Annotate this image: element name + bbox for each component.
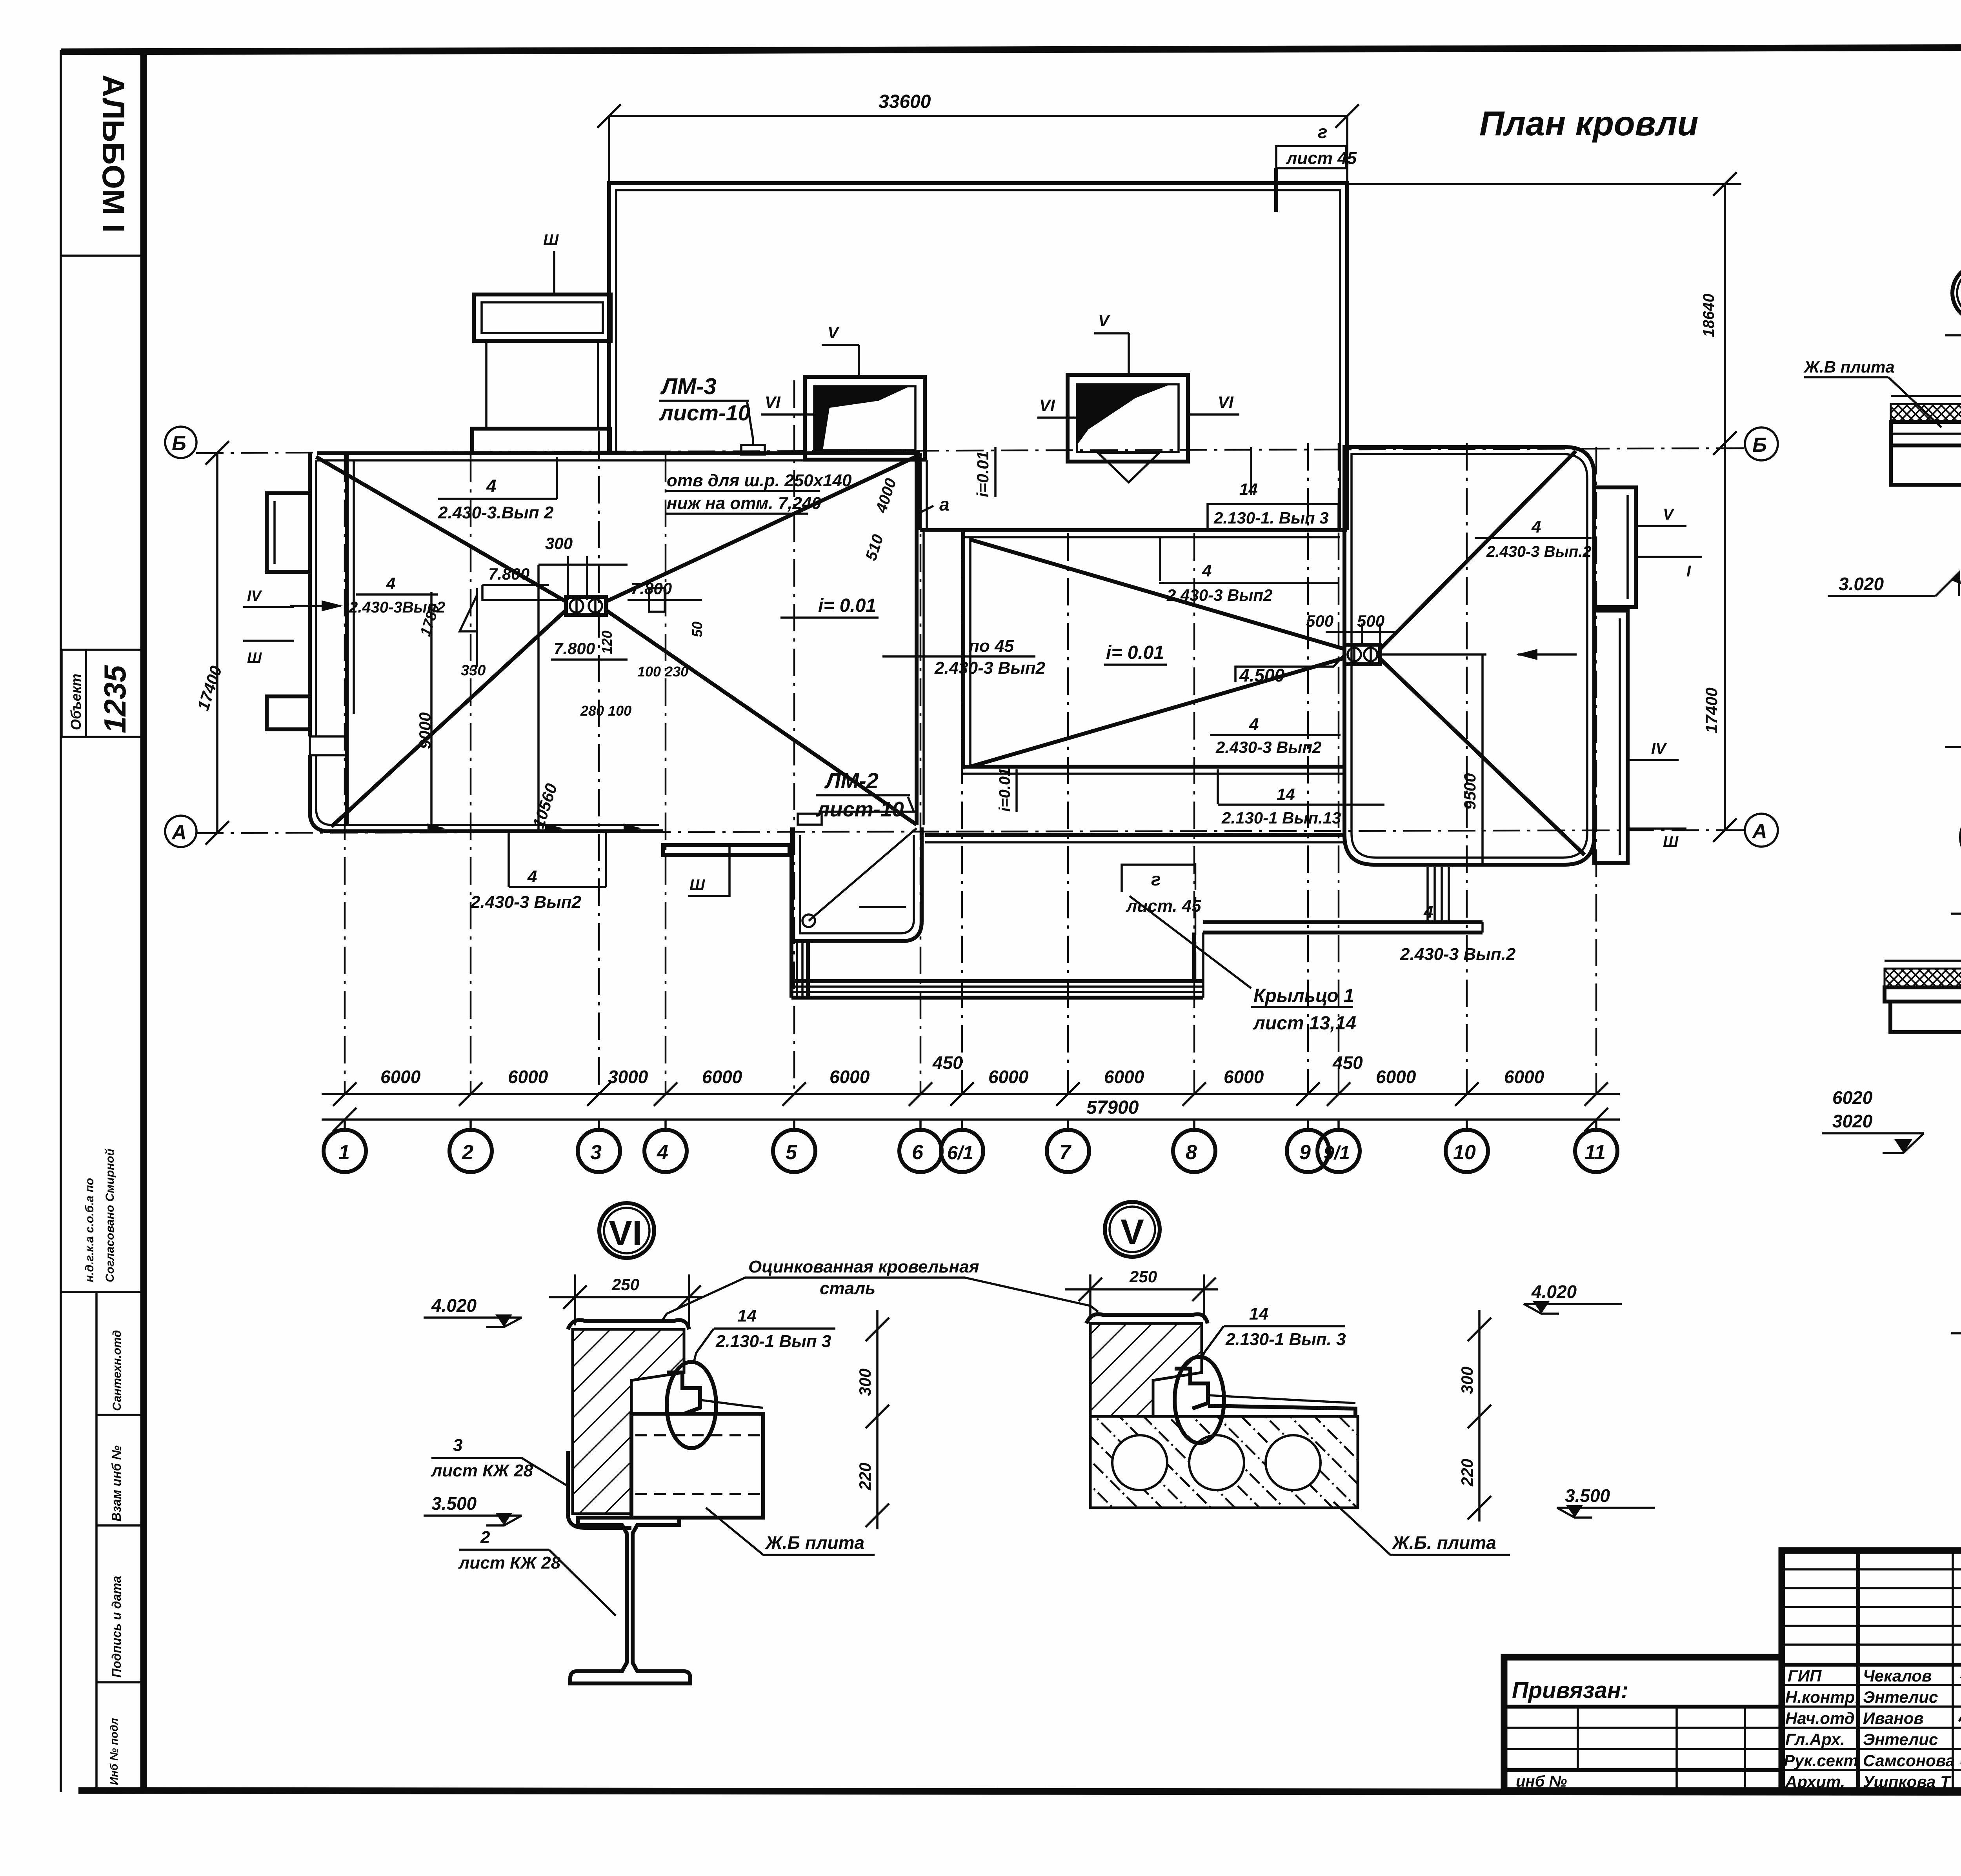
- detail VI: [424, 1274, 889, 1683]
- svg-text:инб №: инб №: [1516, 1773, 1567, 1790]
- chimney upper box: [474, 294, 611, 341]
- svg-text:9500: 9500: [1461, 773, 1479, 810]
- svg-text:А: А: [171, 821, 187, 844]
- svg-text:IV: IV: [1651, 740, 1667, 757]
- svg-text:14: 14: [1239, 480, 1258, 498]
- svg-text:лист. 45: лист. 45: [1126, 896, 1201, 916]
- walkway horizontal: [791, 979, 1203, 983]
- svg-text:4: 4: [1531, 517, 1541, 536]
- svg-text:лист КЖ 28: лист КЖ 28: [458, 1553, 561, 1572]
- svg-text:7: 7: [1059, 1141, 1071, 1164]
- svg-text:4: 4: [1202, 561, 1212, 580]
- svg-text:3.500: 3.500: [431, 1493, 477, 1514]
- svg-text:лист 13,14: лист 13,14: [1253, 1013, 1356, 1034]
- svg-text:Самсонова: Самсонова: [1863, 1751, 1955, 1770]
- left block right edge vertical: [915, 453, 919, 825]
- svg-text:Нач.отд: Нач.отд: [1785, 1709, 1855, 1727]
- svg-text:6000: 6000: [508, 1067, 548, 1087]
- grid circle А left: [165, 816, 196, 847]
- svg-text:i= 0.01: i= 0.01: [1106, 642, 1164, 663]
- section V circle: [1105, 1202, 1160, 1257]
- left edge notch: [310, 736, 347, 755]
- svg-text:11: 11: [1584, 1141, 1606, 1164]
- chimney lower box: [472, 429, 610, 453]
- svg-text:i=0.01: i=0.01: [996, 768, 1013, 812]
- mark V above skylight 1: [858, 345, 860, 377]
- svg-text:4: 4: [486, 476, 497, 496]
- svg-text:Ш: Ш: [247, 650, 262, 666]
- svg-text:8: 8: [1186, 1141, 1197, 1164]
- svg-text:VI: VI: [609, 1214, 642, 1253]
- top roof rectangle outer: [609, 183, 1347, 530]
- grid circle Б right: [1745, 427, 1778, 460]
- egg detail VI: [667, 1362, 716, 1448]
- svg-text:4: 4: [386, 574, 395, 593]
- svg-text:План кровли: План кровли: [1479, 104, 1698, 143]
- svg-text:i=0.01: i=0.01: [973, 451, 992, 497]
- signatures squiggles: [1959, 1661, 1961, 1791]
- svg-text:7.800: 7.800: [488, 565, 529, 583]
- svg-text:Рук.сект: Рук.сект: [1784, 1751, 1858, 1770]
- svg-text:Инб № подл: Инб № подл: [108, 1718, 120, 1785]
- svg-text:2.430-3 Вып2: 2.430-3 Вып2: [470, 893, 582, 912]
- I-beam: [570, 1518, 690, 1683]
- svg-text:VI: VI: [765, 393, 781, 411]
- svg-text:IV: IV: [247, 588, 262, 604]
- svg-text:300: 300: [545, 534, 573, 553]
- right drain box: [1344, 645, 1380, 664]
- galvanized cap V: [1086, 1314, 1208, 1323]
- bottom dimension chain line 1: [322, 1093, 1620, 1095]
- svg-text:4.020: 4.020: [1531, 1282, 1577, 1302]
- flag symbol: [460, 595, 477, 631]
- section marks right: [1636, 525, 1686, 527]
- DETAILS_RIGHT_PLACEHOLDER2: [1803, 265, 1961, 1438]
- svg-text:2.130-1 Вып. 3: 2.130-1 Вып. 3: [1225, 1330, 1346, 1349]
- svg-text:4: 4: [657, 1141, 668, 1164]
- svg-text:3020: 3020: [1832, 1111, 1873, 1131]
- detail I: roof slab: [1803, 311, 1961, 763]
- svg-text:г: г: [1151, 869, 1161, 889]
- dims 300 220 V: [1478, 1310, 1481, 1522]
- svg-text:ЛМ-3: ЛМ-3: [660, 374, 717, 399]
- svg-text:2.430-3 Вып2: 2.430-3 Вып2: [934, 658, 1046, 678]
- svg-text:450: 450: [1332, 1053, 1363, 1073]
- grid circles row: [324, 1130, 1617, 1172]
- left X diagonals: [316, 457, 566, 602]
- mark III above chimney: [553, 251, 555, 294]
- svg-text:4: 4: [527, 867, 537, 886]
- svg-text:V: V: [828, 323, 840, 342]
- left block left edge: [310, 453, 329, 831]
- mark VI left of skylight 2: [1037, 416, 1077, 419]
- signature table: [1782, 1551, 1961, 1791]
- mark VI left of skylight 1: [761, 413, 814, 416]
- dim 33600 top: [609, 115, 1347, 117]
- right block X diagonals: [1380, 451, 1576, 649]
- parapet hatched block V: [1090, 1323, 1202, 1416]
- label Крыльцо 1: [1130, 896, 1251, 988]
- marker г лист 45 top: [1276, 146, 1346, 168]
- svg-text:6000: 6000: [702, 1067, 742, 1087]
- svg-text:Сантехн.отд: Сантехн.отд: [111, 1330, 124, 1411]
- svg-text:2.130-1. Вып 3: 2.130-1. Вып 3: [1213, 509, 1329, 527]
- svg-text:50: 50: [689, 622, 705, 637]
- label 4.500: [1235, 654, 1344, 682]
- svg-text:I: I: [1686, 563, 1691, 580]
- grid circle А right: [1745, 814, 1778, 847]
- vertical grid dash-dot lines: [344, 455, 346, 1094]
- right bump rect: [1594, 487, 1636, 607]
- svg-text:2.430-3 Вып2: 2.430-3 Вып2: [1215, 738, 1321, 756]
- jog grid6 vertical: [918, 453, 922, 530]
- svg-text:3.020: 3.020: [1839, 574, 1884, 594]
- svg-text:18640: 18640: [1700, 294, 1717, 337]
- svg-text:220: 220: [1458, 1459, 1476, 1487]
- svg-text:450: 450: [932, 1053, 963, 1073]
- svg-text:120: 120: [599, 631, 615, 654]
- marker г лист 45 bottom: [1122, 865, 1194, 892]
- svg-text:а: а: [939, 494, 950, 514]
- svg-text:Взам инб №: Взам инб №: [109, 1445, 124, 1522]
- svg-text:3: 3: [590, 1141, 602, 1164]
- svg-text:Архит.: Архит.: [1785, 1772, 1845, 1791]
- svg-text:Ж.Б. плита: Ж.Б. плита: [1392, 1532, 1496, 1553]
- frame left border: [140, 50, 147, 1791]
- grid line А horizontal: [196, 830, 1744, 833]
- dim 250: [574, 1274, 576, 1325]
- svg-text:10: 10: [1453, 1141, 1476, 1164]
- svg-text:500: 500: [1306, 612, 1333, 630]
- svg-text:6000: 6000: [380, 1067, 421, 1087]
- svg-text:Ш: Ш: [1663, 833, 1679, 851]
- svg-text:лист-10: лист-10: [815, 798, 904, 821]
- svg-text:А: А: [1752, 820, 1767, 843]
- skylight 2: [1068, 375, 1188, 462]
- ramp band: [1203, 920, 1483, 924]
- svg-text:i= 0.01: i= 0.01: [818, 595, 876, 616]
- grid circle Б left: [165, 427, 196, 458]
- svg-text:Объект: Объект: [68, 674, 84, 730]
- svg-text:10560: 10560: [529, 781, 561, 831]
- svg-text:АЛЬБОМ I: АЛЬБОМ I: [96, 75, 131, 233]
- svg-text:14: 14: [1277, 785, 1295, 803]
- outer sheet edge left: [60, 50, 62, 1792]
- svg-text:сталь: сталь: [820, 1279, 875, 1298]
- svg-text:Ж.Б плита: Ж.Б плита: [765, 1532, 864, 1553]
- left block bottom edge: [329, 829, 663, 833]
- svg-text:2.430-3 Вып2: 2.430-3 Вып2: [1166, 586, 1272, 604]
- svg-text:510: 510: [862, 533, 887, 563]
- slab body: [1891, 422, 1961, 445]
- svg-text:V: V: [1663, 506, 1675, 523]
- inner arrow left block: [290, 605, 341, 607]
- svg-text:17400: 17400: [1702, 687, 1721, 733]
- svg-text:3.500: 3.500: [1565, 1485, 1610, 1506]
- svg-text:4: 4: [1249, 715, 1259, 734]
- svg-text:лист-10: лист-10: [659, 400, 750, 425]
- left protruding box upper: [267, 493, 310, 572]
- detail V: [1065, 1267, 1655, 1555]
- porch strip west: [663, 845, 789, 855]
- skylight 1: [805, 377, 925, 460]
- svg-text:Ш: Ш: [543, 231, 559, 249]
- svg-text:6000: 6000: [1504, 1067, 1544, 1087]
- label 4 2.430-3 Вып2 bottom left: [508, 831, 510, 887]
- detail IV: [1822, 894, 1961, 1349]
- J channel left: [568, 1451, 631, 1528]
- svg-text:Б: Б: [1752, 434, 1767, 456]
- left pointing arrow: [1518, 653, 1577, 656]
- svg-text:Привязан:: Привязан:: [1512, 1678, 1628, 1703]
- svg-text:г: г: [1318, 122, 1328, 142]
- svg-text:6000: 6000: [830, 1067, 870, 1087]
- slab lower body: [1891, 445, 1961, 485]
- frame top border: [61, 46, 1961, 52]
- svg-text:V: V: [1121, 1212, 1144, 1252]
- mark V above skylight 2: [1128, 333, 1130, 375]
- album box: [61, 254, 144, 257]
- svg-text:2: 2: [462, 1141, 473, 1164]
- svg-text:250: 250: [611, 1275, 639, 1294]
- svg-text:3: 3: [453, 1436, 462, 1455]
- middle band X diagonals: [970, 540, 1344, 649]
- DETAILS_BOTTOM_PLACEHOLDER3: [424, 1202, 1655, 1683]
- dim 18640 / 17400 right: [1347, 183, 1741, 185]
- svg-text:250: 250: [1129, 1267, 1157, 1286]
- svg-text:Иванов: Иванов: [1863, 1709, 1924, 1727]
- dims 300 220 right: [876, 1310, 879, 1529]
- svg-text:9: 9: [1299, 1141, 1311, 1164]
- frame bottom border: [78, 1791, 1961, 1793]
- svg-text:отв для ш.р. 250х140: отв для ш.р. 250х140: [667, 471, 852, 490]
- svg-text:Чекалов: Чекалов: [1863, 1667, 1932, 1685]
- svg-text:Н.контр:: Н.контр:: [1785, 1688, 1860, 1706]
- svg-text:4.500: 4.500: [1239, 665, 1285, 685]
- svg-text:2.130-1 Вып 3: 2.130-1 Вып 3: [715, 1332, 831, 1351]
- svg-text:Подпись и дата: Подпись и дата: [109, 1576, 124, 1678]
- middle band lower strip top: [963, 765, 1344, 769]
- privyazan box: [1504, 1657, 1782, 1791]
- slab cross hatch strip: [1891, 404, 1961, 422]
- mark VI right of skylight 2: [1188, 413, 1239, 416]
- svg-text:ЛМ-2: ЛМ-2: [824, 768, 879, 793]
- dim 250 V: [1089, 1274, 1091, 1320]
- svg-text:280 100: 280 100: [580, 703, 631, 719]
- right block outer: [1344, 447, 1594, 865]
- svg-text:2.430-3.Вып 2: 2.430-3.Вып 2: [438, 503, 554, 522]
- left block inner vertical: [345, 453, 349, 825]
- svg-text:Гл.Арх.: Гл.Арх.: [1785, 1730, 1845, 1749]
- stamp box dividers: [61, 1291, 144, 1293]
- svg-text:по 45: по 45: [969, 636, 1014, 656]
- roof slab IV: crosshatch strip: [1885, 969, 1961, 987]
- svg-text:Ж.В плита: Ж.В плита: [1803, 358, 1895, 376]
- svg-text:6000: 6000: [1376, 1067, 1416, 1087]
- bottom dimension chain line 2: [322, 1118, 1620, 1121]
- top roof bottom edge: [963, 528, 1347, 532]
- svg-text:4000: 4000: [872, 476, 900, 515]
- svg-text:6000: 6000: [1224, 1067, 1264, 1087]
- svg-text:57900: 57900: [1086, 1097, 1139, 1118]
- parapet hatched block VI: [573, 1329, 684, 1514]
- svg-text:3000: 3000: [608, 1067, 648, 1087]
- section marks left edge: [243, 606, 294, 608]
- svg-text:Ш: Ш: [689, 876, 705, 894]
- hollow core slab: [1090, 1416, 1358, 1508]
- svg-text:4.020: 4.020: [431, 1295, 477, 1316]
- svg-text:220: 220: [856, 1463, 874, 1491]
- svg-text:5: 5: [786, 1141, 797, 1164]
- middle band bottom edge: [925, 833, 1344, 837]
- dim 17400 left: [216, 453, 218, 833]
- porch ЛМ-2: [792, 827, 922, 941]
- svg-text:300: 300: [1458, 1367, 1476, 1394]
- chimney connectors: [485, 341, 488, 429]
- svg-text:6020: 6020: [1832, 1087, 1873, 1108]
- signature names: [1784, 1667, 1955, 1791]
- svg-text:6/1: 6/1: [947, 1143, 973, 1163]
- svg-text:1: 1: [338, 1141, 350, 1164]
- left X drain box: [566, 597, 606, 615]
- walkway right jog: [1192, 933, 1196, 981]
- svg-text:Б: Б: [172, 432, 186, 455]
- bay labels: [380, 1053, 1544, 1087]
- svg-text:33600: 33600: [879, 91, 931, 112]
- svg-text:2.430-3 Вып.2: 2.430-3 Вып.2: [1400, 945, 1516, 964]
- svg-text:Ушпкова Т: Ушпкова Т: [1863, 1772, 1952, 1791]
- walkway left vertical: [789, 843, 793, 998]
- galvanized cap: [568, 1320, 689, 1329]
- svg-text:330: 330: [461, 662, 486, 679]
- small drain stub mid: [649, 588, 665, 612]
- svg-text:V: V: [1098, 311, 1110, 330]
- svg-text:Крыльцо 1: Крыльцо 1: [1253, 985, 1354, 1006]
- right strip rect: [1594, 611, 1628, 863]
- middle band left edge: [961, 530, 965, 769]
- egg detail V: [1175, 1357, 1224, 1443]
- grid line Б horizontal: [196, 448, 1744, 453]
- dim 9500: [1481, 654, 1484, 865]
- svg-text:300: 300: [856, 1369, 874, 1396]
- object box 1235: [62, 650, 144, 737]
- svg-text:100 230: 100 230: [637, 664, 688, 680]
- left protruding box lower: [267, 696, 310, 729]
- svg-text:Энтелис: Энтелис: [1863, 1730, 1938, 1749]
- svg-text:н.д.г.к.а с.о.б.а по: н.д.г.к.а с.о.б.а по: [83, 1178, 96, 1282]
- label 4 2.430-3 Вып2 mid top: [1159, 538, 1161, 581]
- svg-text:6000: 6000: [1104, 1067, 1144, 1087]
- svg-text:9/1: 9/1: [1324, 1143, 1350, 1163]
- svg-text:ГИП: ГИП: [1788, 1667, 1822, 1685]
- pipes below right block: [1426, 867, 1429, 922]
- circle stub lines: [345, 1120, 1596, 1131]
- svg-text:2.430-3 Вып.2: 2.430-3 Вып.2: [1486, 543, 1592, 560]
- svg-text:Оцинкованная кровельная: Оцинкованная кровельная: [748, 1257, 979, 1276]
- svg-text:7.800: 7.800: [554, 639, 595, 658]
- svg-text:14: 14: [737, 1306, 757, 1325]
- section I circle: [1952, 265, 1961, 321]
- top roof rectangle inner: [616, 190, 1340, 530]
- svg-text:VI: VI: [1039, 396, 1055, 414]
- svg-text:2: 2: [480, 1528, 490, 1547]
- svg-text:17400: 17400: [194, 664, 226, 713]
- svg-text:лист 45: лист 45: [1286, 149, 1357, 168]
- label 14 2.130-1 Вып.13: [1217, 769, 1219, 804]
- band top edge: [317, 451, 920, 455]
- svg-text:6: 6: [912, 1141, 924, 1164]
- section VI circle: [599, 1203, 654, 1258]
- slab right: [631, 1414, 763, 1518]
- direction arrows on bottom edge: [427, 823, 445, 833]
- svg-text:6000: 6000: [988, 1067, 1029, 1087]
- svg-text:4: 4: [1423, 902, 1433, 922]
- svg-text:VI: VI: [1218, 393, 1234, 411]
- right block inner: [1352, 454, 1587, 858]
- svg-text:Согласовано Смирной: Согласовано Смирной: [104, 1149, 116, 1282]
- svg-text:лист КЖ 28: лист КЖ 28: [431, 1461, 533, 1480]
- svg-text:2.130-1 Вып.13: 2.130-1 Вып.13: [1221, 809, 1341, 827]
- svg-text:14: 14: [1249, 1304, 1268, 1323]
- svg-text:Энтелис: Энтелис: [1863, 1688, 1938, 1706]
- svg-text:1235: 1235: [98, 665, 132, 733]
